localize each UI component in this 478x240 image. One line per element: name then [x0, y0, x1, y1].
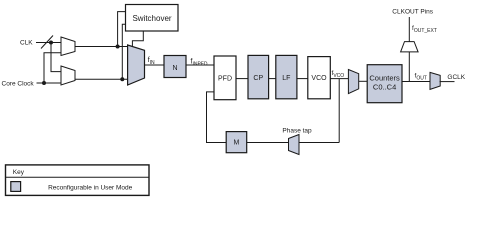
wire fINPFD [186, 64, 214, 66]
svg-text:Counters: Counters [369, 73, 400, 82]
svg-text:LF: LF [282, 75, 290, 82]
svg-text:Switchover: Switchover [132, 14, 171, 23]
wire PFD to CP [236, 78, 248, 80]
svg-text:CLK: CLK [20, 40, 33, 47]
wire fOUT [402, 81, 430, 83]
wire phase tap to M [247, 142, 289, 144]
junction dot on inclk0 wire [116, 45, 120, 49]
wire CLK to lower mux [51, 43, 61, 72]
svg-text:CP: CP [253, 75, 263, 82]
svg-text:VCO: VCO [311, 75, 327, 82]
svg-text:Reconfigurable in User Mode: Reconfigurable in User Mode [48, 185, 133, 192]
counters C0..C4 [367, 65, 402, 103]
clock switchover mux [128, 45, 145, 85]
wire CLK input [36, 42, 61, 44]
wire switchover select to mux [132, 31, 143, 48]
divider N [164, 56, 186, 78]
wire feedback tap down [338, 79, 340, 143]
wire to external clkout [408, 52, 410, 82]
input mux upper [61, 37, 75, 56]
svg-text:PFD: PFD [218, 76, 232, 83]
key swatch reconfigurable [11, 182, 21, 192]
phase frequency detector PFD [214, 56, 236, 100]
oscillator VCO [308, 57, 331, 99]
counter select mux [348, 70, 358, 94]
junction dot on inclk1 wire [120, 77, 124, 81]
wire CP to LF [269, 78, 276, 80]
switchover box [126, 5, 179, 32]
wire Core Clock input [37, 82, 62, 84]
wire fIN [145, 64, 165, 66]
wire inclk0 [75, 46, 128, 48]
external clkout mux [401, 42, 419, 52]
svg-text:CLKOUT Pins: CLKOUT Pins [392, 9, 433, 16]
svg-text:Key: Key [13, 169, 25, 176]
svg-text:M: M [233, 140, 239, 147]
wire LF to VCO [297, 78, 308, 80]
gclk mux [430, 72, 440, 89]
wire switchover monitor 2 [122, 24, 125, 79]
wire mux to counters [359, 80, 368, 82]
input mux lower [61, 66, 75, 85]
charge pump CP [248, 55, 269, 98]
svg-text:N: N [172, 65, 177, 72]
wire to CLKOUT pins [408, 17, 410, 42]
junction dot CLK [49, 41, 53, 45]
wire inclk1 [75, 78, 128, 80]
wire to GCLK [440, 81, 455, 83]
key legend box [6, 165, 150, 196]
feedback counter M [226, 132, 247, 153]
wire switchover monitor 1 [118, 12, 126, 47]
wire M to PFD [207, 92, 227, 143]
loop filter LF [276, 55, 297, 98]
wire Core Clock to upper mux [44, 53, 61, 83]
svg-text:C0..C4: C0..C4 [373, 83, 396, 92]
bus slash on CLK [41, 36, 53, 49]
wire feedback to PFD [299, 142, 340, 144]
svg-text:Core Clock: Core Clock [2, 81, 35, 88]
svg-text:Phase tap: Phase tap [282, 128, 312, 135]
junction dot Core Clock [42, 81, 46, 85]
svg-text:GCLK: GCLK [447, 74, 465, 81]
wire fVCO [330, 78, 348, 80]
phase tap mux [289, 135, 300, 155]
